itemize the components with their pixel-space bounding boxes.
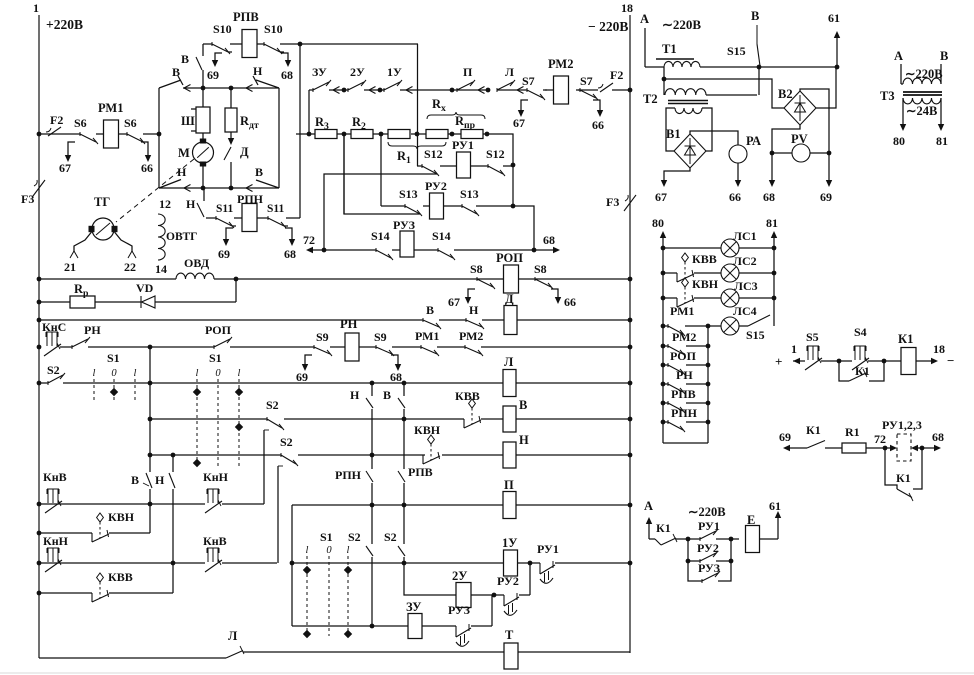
svg-text:КВВ: КВВ <box>692 252 717 266</box>
wire KVV row y593 <box>39 592 92 594</box>
svg-text:РПН: РПН <box>671 406 698 420</box>
svg-text:В1: В1 <box>666 127 681 141</box>
svg-text:72: 72 <box>874 432 886 446</box>
arrow into RU box right <box>911 445 918 451</box>
svg-text:21: 21 <box>64 260 76 274</box>
contact S7 left <box>526 88 528 92</box>
wire bridge bottom <box>159 187 279 189</box>
wire vertical x372 low <box>371 505 373 544</box>
relay coil RPN <box>242 204 257 232</box>
svg-text:Н: Н <box>469 303 479 317</box>
wire B1 top to PA <box>690 131 738 145</box>
svg-text:l: l <box>347 545 350 556</box>
contact S11 left <box>215 216 217 220</box>
contact S6 left <box>79 132 81 136</box>
terminal 68 arrow (RU3 row) <box>553 247 560 253</box>
transformer T2 winding secondary <box>675 108 702 114</box>
contact S14 left <box>375 248 377 252</box>
wire RU3 row <box>311 249 376 251</box>
contact D <box>230 132 232 141</box>
button KnV on KnN row <box>207 547 219 549</box>
svg-text:S14: S14 <box>432 229 451 243</box>
wire T2 right vert <box>706 94 759 96</box>
svg-text:68: 68 <box>390 370 402 384</box>
transformer T3 secondary <box>903 98 941 104</box>
wire 3U row <box>292 625 408 627</box>
svg-text:РПН: РПН <box>237 192 264 206</box>
wire A lead <box>644 28 646 67</box>
svg-text:1: 1 <box>791 342 797 356</box>
svg-text:61: 61 <box>769 499 781 513</box>
wire 2U branch <box>404 563 456 595</box>
transformer T3 primary <box>903 78 941 84</box>
wire TG left lead / terminal 21 <box>74 232 92 252</box>
svg-text:КВВ: КВВ <box>108 570 133 584</box>
wire left rail +220V <box>38 15 40 658</box>
lamp LS1 <box>721 239 739 257</box>
terminal 68 arrow (S9) <box>391 355 398 367</box>
relay coil PM1 <box>104 120 119 148</box>
terminal 67 arrow (S7) <box>521 100 528 113</box>
wire B2 top bracket <box>800 89 829 153</box>
contact K1 self-hold <box>839 361 849 381</box>
contact RU2 branch <box>688 539 700 561</box>
svg-text:68: 68 <box>763 190 775 204</box>
node PM1 row / bridge left <box>37 132 42 137</box>
svg-text:К1: К1 <box>656 521 671 535</box>
svg-text:S2: S2 <box>266 398 279 412</box>
svg-text:К1: К1 <box>855 364 870 378</box>
svg-text:81: 81 <box>766 216 778 230</box>
terminal 18 - <box>931 358 938 364</box>
svg-text:l: l <box>196 368 199 379</box>
contact 3U (top row) <box>312 88 314 92</box>
limit switch KVV contact (V row) <box>469 399 476 408</box>
svg-text:− 220В: − 220В <box>588 19 628 34</box>
svg-text:РН: РН <box>84 323 101 337</box>
svg-text:Е: Е <box>747 513 755 527</box>
relay coil L <box>503 370 516 397</box>
contact S11 right <box>267 216 269 220</box>
wire shunt to motor <box>202 133 204 142</box>
svg-text:В2: В2 <box>778 87 793 101</box>
contact S15 (lamp row) <box>748 315 770 326</box>
svg-text:РУ1: РУ1 <box>452 138 474 152</box>
transformer T2 winding primary <box>665 89 706 95</box>
svg-text:l: l <box>306 545 309 556</box>
node OVD / Rp tap <box>234 277 239 282</box>
svg-text:0: 0 <box>215 368 221 379</box>
contact N (D row) <box>465 318 467 322</box>
diamonds S1 block3 bottom <box>303 630 311 638</box>
svg-text:Д: Д <box>240 145 249 159</box>
svg-text:В: В <box>940 49 948 63</box>
wire LS3 row <box>663 297 677 299</box>
svg-text:ТГ: ТГ <box>94 195 110 209</box>
contact RPV ladder <box>667 401 669 405</box>
svg-text:Т2: Т2 <box>643 92 658 106</box>
svg-text:80: 80 <box>893 134 905 148</box>
contact ROP <box>213 345 215 349</box>
node motor top wire <box>201 86 206 91</box>
contact S2 on x372 low <box>366 546 373 556</box>
contact V lower-right <box>256 180 279 188</box>
svg-text:Л: Л <box>504 355 514 369</box>
svg-text:В: В <box>426 303 434 317</box>
svg-text:68: 68 <box>932 430 944 444</box>
wire 1U row <box>292 562 503 564</box>
svg-text:КВН: КВН <box>414 423 441 437</box>
svg-text:66: 66 <box>564 295 576 309</box>
wire right rail -220V <box>629 15 631 653</box>
contact RU3 branch <box>688 561 702 581</box>
wire vertical x309 <box>308 90 310 134</box>
wire to 68 <box>922 447 934 449</box>
contact P (top row) <box>456 88 458 92</box>
wire PM1 row <box>39 133 80 135</box>
svg-text:РН: РН <box>676 368 693 382</box>
svg-text:Н: Н <box>253 64 263 78</box>
svg-text:l: l <box>93 368 96 379</box>
wire vertical x150 <box>149 347 151 472</box>
svg-text:S1: S1 <box>209 351 222 365</box>
svg-text:S9: S9 <box>374 330 387 344</box>
contact S13 left <box>404 204 406 208</box>
svg-text:РМ2: РМ2 <box>459 329 483 343</box>
svg-text:А: А <box>644 499 653 513</box>
svg-text:1У: 1У <box>502 536 517 550</box>
svg-text:61: 61 <box>828 11 840 25</box>
svg-text:80: 80 <box>652 216 664 230</box>
svg-text:S1: S1 <box>320 530 333 544</box>
terminal 66 arrow (S8) <box>551 289 558 300</box>
svg-text:РПВ: РПВ <box>408 465 433 479</box>
wire bridge left vertical <box>158 88 160 188</box>
contact S6 right <box>126 132 128 136</box>
svg-text:РОП: РОП <box>496 251 523 265</box>
svg-text:S7: S7 <box>522 74 535 88</box>
contact S2 (N row) <box>280 453 282 457</box>
wire top row y90 <box>309 89 313 91</box>
contact S8 left <box>476 277 478 281</box>
svg-text:S2: S2 <box>280 435 293 449</box>
svg-text:Т3: Т3 <box>880 89 895 103</box>
terminal 67 arrow (S8) <box>468 289 475 300</box>
limit switch KVV (lamp) <box>682 253 689 262</box>
svg-text:67: 67 <box>513 116 525 130</box>
svg-text:ЛС4: ЛС4 <box>733 304 757 318</box>
svg-text:М: М <box>178 146 190 160</box>
terminal 81 (lamp panel) <box>773 238 775 326</box>
wire 69 lead (PV) <box>828 153 830 182</box>
brace Rx <box>427 112 485 119</box>
svg-text:РОП: РОП <box>205 323 232 337</box>
contact RM2 ladder <box>663 345 668 347</box>
resistor Rpr <box>461 130 483 139</box>
contact K1 bypass loop <box>885 448 897 489</box>
svg-text:РМ2: РМ2 <box>672 330 696 344</box>
voltmeter PV <box>792 144 810 162</box>
contact S9 left <box>313 345 315 349</box>
svg-text:∼220В: ∼220В <box>688 505 726 519</box>
svg-text:F3: F3 <box>21 192 34 206</box>
contact ROP ladder <box>667 363 669 367</box>
svg-text:0: 0 <box>326 545 332 556</box>
relay coil P <box>503 492 516 519</box>
svg-text:В: В <box>751 9 759 23</box>
wire T row <box>39 657 226 659</box>
wire KnV row y504 <box>39 503 46 505</box>
resistor R1b <box>426 130 448 139</box>
lamp LS4 <box>721 317 739 335</box>
lamp LS3 <box>721 289 739 307</box>
wire OVD row <box>39 278 176 280</box>
svg-text:РУ1: РУ1 <box>698 519 720 533</box>
svg-text:2У: 2У <box>452 569 467 583</box>
diode VD <box>140 296 142 308</box>
contact S12 right <box>487 164 489 168</box>
contact S14 right <box>437 248 439 252</box>
svg-text:S9: S9 <box>316 330 329 344</box>
svg-text:69: 69 <box>218 247 230 261</box>
relay coil D <box>504 306 517 335</box>
svg-text:+: + <box>775 354 782 369</box>
wire bridge right vertical <box>278 88 280 188</box>
wire B2 right to top wire <box>816 67 836 108</box>
svg-text:КнВ: КнВ <box>43 470 67 484</box>
svg-text:66: 66 <box>729 190 741 204</box>
wire vertical x372 <box>371 383 373 396</box>
svg-text:Н: Н <box>155 473 165 487</box>
contact S13 right <box>461 204 463 208</box>
wire T3 81 lead <box>940 98 942 126</box>
diamond S1 block2 row3 <box>193 459 201 467</box>
terminal 69 arrow (S9) <box>305 355 312 367</box>
wire RU1 row <box>416 134 418 166</box>
svg-text:КнС: КнС <box>42 320 66 334</box>
svg-text:∼220В: ∼220В <box>662 17 701 32</box>
svg-text:69: 69 <box>207 68 219 82</box>
svg-text:18: 18 <box>933 342 945 356</box>
svg-text:S4: S4 <box>854 325 867 339</box>
brace R1 <box>388 142 446 149</box>
svg-text:67: 67 <box>448 295 460 309</box>
resistor R2 <box>351 130 373 139</box>
contact 1U (top row) <box>383 88 385 92</box>
winding OVD (motor field) <box>176 273 214 279</box>
svg-text:S2: S2 <box>384 530 397 544</box>
wire TG right lead / terminal 22 <box>115 232 133 252</box>
terminal 67 arrow (S6) <box>68 142 75 158</box>
svg-text:РМ1: РМ1 <box>670 304 694 318</box>
limit switch KVN contact (N row) <box>428 435 435 444</box>
contact S12 left <box>421 164 423 168</box>
svg-text:В: В <box>172 65 180 79</box>
svg-text:66: 66 <box>141 161 153 175</box>
mechanical link M-TG (dashed) <box>116 159 194 222</box>
transformer T2 core <box>668 100 708 102</box>
wire D row <box>39 319 423 321</box>
contact V on x150 <box>145 472 150 474</box>
contact V upper-left <box>159 80 181 88</box>
svg-text:В: В <box>255 165 263 179</box>
svg-text:ЗУ: ЗУ <box>406 600 421 614</box>
node RPV branch right <box>298 42 303 47</box>
svg-text:Т1: Т1 <box>662 42 677 56</box>
button KnN (backward) <box>47 547 59 549</box>
wire LS1 row <box>663 247 721 249</box>
svg-text:1: 1 <box>33 1 39 15</box>
contact S2 on x404 low <box>398 546 405 556</box>
wire bridge top <box>183 87 279 89</box>
svg-text:18: 18 <box>621 1 633 15</box>
svg-text:В: В <box>131 473 139 487</box>
terminal 66 arrow (S6) <box>141 142 148 158</box>
svg-text:S6: S6 <box>74 116 87 130</box>
button KnS (stop) <box>46 331 58 333</box>
contact RPN ladder <box>667 420 669 424</box>
contact RM2 (RN row) <box>464 345 466 349</box>
arrow into RU box left <box>885 447 888 449</box>
relay coil E <box>746 526 760 553</box>
svg-text:14: 14 <box>155 262 167 276</box>
wire 61 lead <box>835 65 840 70</box>
wire bottom faint line <box>0 672 974 674</box>
wire link S2 to KnN row <box>263 430 265 504</box>
contact L (top row) <box>496 88 498 92</box>
wire Rp-VD row <box>39 301 70 303</box>
svg-text:РОП: РОП <box>670 349 697 363</box>
svg-text:VD: VD <box>136 281 154 295</box>
svg-text:S15: S15 <box>727 44 746 58</box>
wire RN row <box>39 346 52 348</box>
svg-text:КнН: КнН <box>43 534 69 548</box>
contact RM1 (RN row) <box>420 345 422 349</box>
relay coil V <box>503 406 516 432</box>
wire link S2 to KnV2 row <box>277 466 279 563</box>
diamonds S1 block3 top <box>303 566 311 574</box>
relay coil T <box>504 643 518 669</box>
wire K1-R1 row <box>790 447 807 449</box>
svg-text:КВН: КВН <box>108 510 135 524</box>
contact RN ladder <box>667 382 669 386</box>
wire vertical x534 <box>513 206 534 250</box>
svg-text:∼24В: ∼24В <box>906 104 937 118</box>
contact N on x173 <box>169 473 175 488</box>
wire vertical x404 <box>403 383 405 396</box>
svg-text:КВВ: КВВ <box>455 389 480 403</box>
wire LS2 row <box>663 272 677 274</box>
contact K1 (E circuit) <box>655 539 661 545</box>
wire RPV link down to resistor row <box>417 44 419 166</box>
relay coil 3U <box>408 614 422 639</box>
node motor bottom wire <box>201 186 206 191</box>
svg-text:−: − <box>947 353 954 368</box>
wire KnN row y563 <box>39 562 173 564</box>
svg-text:F2: F2 <box>50 113 63 127</box>
wire B1 bottom to 67 <box>664 168 690 182</box>
svg-text:РПВ: РПВ <box>671 387 696 401</box>
svg-text:ЛС2: ЛС2 <box>733 254 757 268</box>
svg-text:РУЗ: РУЗ <box>448 603 470 617</box>
contact S8 right <box>534 277 536 281</box>
wire vertical RU2-3U link <box>491 595 493 626</box>
svg-text:PV: PV <box>791 132 808 146</box>
svg-text:81: 81 <box>936 134 948 148</box>
wire V coil row <box>150 418 267 420</box>
svg-text:S15: S15 <box>746 328 765 342</box>
wire vertical x173 <box>172 455 174 472</box>
node 68 right <box>920 446 925 451</box>
node L row x150 <box>148 381 153 386</box>
button KnV (forward) <box>47 488 59 490</box>
terminal 66 arrow (S7) <box>593 100 600 113</box>
node L row verticals <box>370 381 375 386</box>
button KnN on KnV row <box>207 488 219 490</box>
terminal 80 (lamp panel) <box>662 238 664 443</box>
diamond S1 block2 row2 <box>235 423 243 431</box>
svg-text:Л: Л <box>228 629 238 643</box>
wire T2 secondary to B1 <box>666 108 675 151</box>
svg-text:РПН: РПН <box>335 468 362 482</box>
resistor R1 (measure) <box>842 443 866 453</box>
relay coil RM2 <box>554 76 569 104</box>
fuse F3 left <box>33 180 45 196</box>
dashed relay box RU123 <box>897 434 911 461</box>
tachogenerator TG <box>92 218 114 240</box>
contact RPN on x372 <box>366 471 373 482</box>
svg-text:S10: S10 <box>213 22 232 36</box>
wire T3 A lead <box>900 64 902 84</box>
resistor Rdt <box>230 88 232 108</box>
contact N lower-left <box>159 180 181 189</box>
wire LS4 row <box>663 325 668 327</box>
wire RPN link vertical <box>299 44 301 218</box>
svg-text:S13: S13 <box>460 187 479 201</box>
contact N to RPN <box>203 188 205 201</box>
wire PA to 66 <box>737 163 739 182</box>
svg-text:72: 72 <box>303 233 315 247</box>
svg-text:РУЗ: РУЗ <box>393 218 415 232</box>
contact V on RPV feed vertical <box>202 44 204 56</box>
svg-text:РУ2: РУ2 <box>425 179 447 193</box>
contact S2 (V row) <box>266 417 268 421</box>
fuse F2 left <box>48 127 61 136</box>
svg-text:69: 69 <box>820 190 832 204</box>
svg-text:S12: S12 <box>424 147 443 161</box>
svg-text:РПВ: РПВ <box>233 10 259 24</box>
svg-text:S11: S11 <box>216 203 234 215</box>
svg-text:РУ2: РУ2 <box>697 541 719 555</box>
wire vertical x404 low <box>403 505 405 544</box>
svg-text:П: П <box>504 478 514 492</box>
contact S10 left <box>211 42 213 46</box>
svg-text:S14: S14 <box>371 229 390 243</box>
svg-text:К1: К1 <box>806 423 821 437</box>
relay coil 1U <box>504 550 518 576</box>
fuse F2 right <box>600 83 613 92</box>
contact N upper-right <box>256 80 279 88</box>
diamond S1 block1 <box>110 388 118 396</box>
terminal 68 arrow (S10) <box>281 53 288 63</box>
wire PV row <box>772 152 792 154</box>
svg-text:ЛС1: ЛС1 <box>733 229 757 243</box>
limit switch KVN (lamp) <box>682 278 689 287</box>
svg-text:Н: Н <box>350 388 360 402</box>
svg-text:КнВ: КнВ <box>203 534 227 548</box>
wire K1 circuit <box>793 360 805 362</box>
wire 68 lead (PV) <box>771 153 773 182</box>
